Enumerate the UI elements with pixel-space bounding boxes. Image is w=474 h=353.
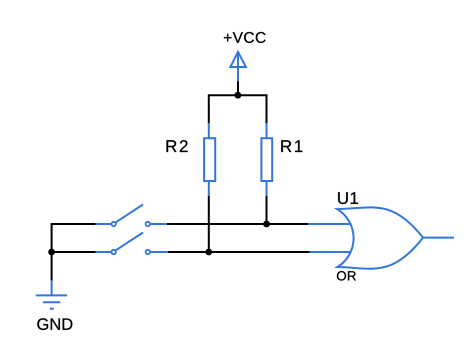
wire row2 left black: [51, 251, 96, 253]
label R1: [281, 140, 302, 152]
wire left bus vertical: [51, 224, 53, 281]
wire R1 bottom lead: [266, 196, 268, 224]
wire VCC stem: [237, 81, 239, 95]
wire top bracket: [209, 95, 267, 123]
power arrow symbol: [230, 52, 246, 81]
wire row2 middle black: [168, 251, 310, 253]
switch SW1: [112, 205, 151, 227]
wire gate output: [423, 237, 454, 239]
node junction row2 / R2: [205, 249, 212, 256]
wire gate input 2 blue: [310, 251, 351, 253]
wire row1 right blue stub: [150, 223, 167, 225]
label R2: [166, 140, 187, 152]
power label +VCC: [224, 32, 266, 43]
label GND: [37, 318, 72, 330]
wire row2 right blue stub: [150, 251, 168, 253]
ground symbol: [36, 295, 67, 308]
label OR: [337, 271, 356, 280]
wire gate input 1 blue: [308, 223, 352, 225]
op gate U1 OR body: [337, 207, 423, 268]
resistor R2: [204, 123, 215, 196]
resistor R1: [261, 123, 272, 196]
wire R2 bottom lead: [208, 196, 210, 252]
wire row1 left blue stub: [96, 223, 112, 225]
switch SW2: [112, 233, 151, 255]
wire row2 left blue stub: [96, 251, 112, 253]
ground wire blue stub: [51, 281, 53, 296]
node junction left bus: [48, 249, 55, 256]
wire row1 middle black: [167, 223, 308, 225]
label U1: [338, 192, 358, 204]
node junction at VCC: [235, 92, 242, 99]
node junction row1 / R1: [263, 221, 270, 228]
wire row1 left black: [51, 223, 96, 225]
